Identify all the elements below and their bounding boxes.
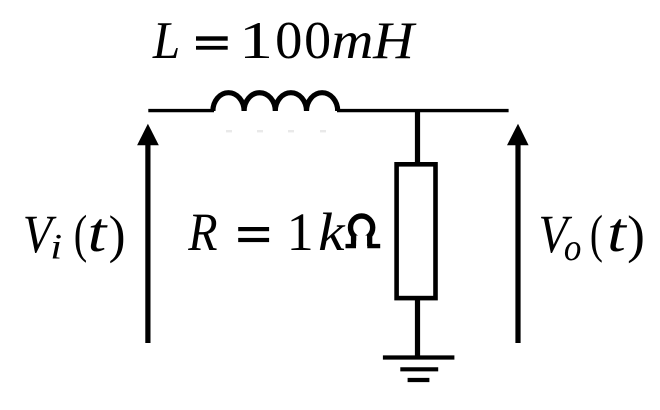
svg-text:): ) (627, 206, 645, 264)
svg-text:t: t (607, 202, 627, 264)
label Vo(t) (539, 202, 646, 269)
svg-text:(: ( (590, 206, 603, 264)
inductor L1 (4 humps) (213, 93, 338, 111)
svg-text:1: 1 (287, 201, 314, 262)
arrow Vo (output voltage) (507, 124, 529, 343)
svg-text:0: 0 (275, 11, 302, 70)
svg-text:1: 1 (239, 11, 273, 70)
wire: resistor to ground (415, 298, 420, 358)
svg-text:H: H (372, 11, 417, 70)
node: junction above resistor (415, 110, 420, 166)
arrow Vi (input voltage) (137, 124, 159, 343)
ground (383, 358, 455, 381)
svg-text:i: i (50, 227, 62, 267)
svg-text:R: R (187, 201, 217, 262)
svg-text:k: k (318, 201, 345, 262)
svg-text:o: o (564, 227, 582, 269)
svg-text:m: m (331, 11, 373, 70)
resistor R1 (rectangle body) (397, 164, 436, 298)
faint artifact dots under inductor (226, 130, 326, 132)
svg-text:): ) (109, 206, 126, 264)
svg-text:t: t (88, 202, 108, 264)
wire: input top-left horizontal (148, 109, 214, 112)
label Vi(t) (23, 202, 126, 267)
label L = 100mH (152, 11, 417, 70)
svg-text:0: 0 (304, 11, 331, 70)
wire: top horizontal to output (337, 109, 509, 112)
svg-text:L: L (152, 11, 180, 70)
label R = 1kOhm (187, 201, 380, 262)
svg-text:(: ( (74, 206, 88, 264)
